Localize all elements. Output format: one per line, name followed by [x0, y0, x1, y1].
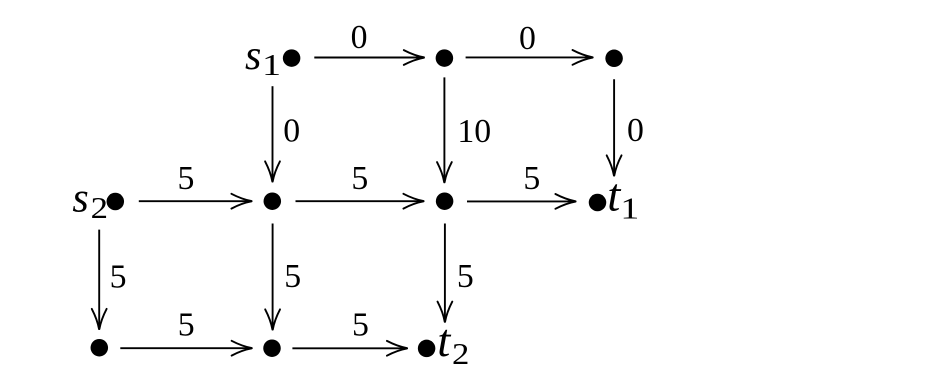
svg-text:5: 5 [351, 160, 368, 197]
arrowhead edge s1->a2 [404, 50, 424, 65]
arrowhead edge s2->b2 [231, 194, 251, 209]
wire edge s2->c1 vertical [98, 230, 100, 329]
svg-text:5: 5 [352, 307, 369, 344]
svg-text:5: 5 [284, 258, 301, 295]
svg-text:t: t [437, 315, 451, 367]
svg-text:10: 10 [457, 113, 491, 150]
svg-text:0: 0 [351, 19, 368, 56]
arrowhead edge c2->t2 [387, 341, 407, 356]
wire edge a2->b3 vertical [443, 77, 445, 182]
node s1 dot [283, 49, 301, 67]
svg-text:1: 1 [620, 192, 639, 226]
svg-text:s: s [72, 176, 88, 222]
wire edge a2->a3 [466, 56, 593, 58]
svg-text:5: 5 [178, 307, 195, 344]
wire edge c1->c2 [120, 347, 251, 349]
wire edge s2->b2 [139, 200, 252, 202]
node c2 dot [263, 339, 281, 357]
arrowhead edge c1->c2 [232, 341, 252, 356]
arrowhead edge b2->c2 vertical [265, 309, 280, 329]
svg-text:t: t [607, 170, 621, 222]
node b2 dot [264, 192, 282, 210]
wire edge a3->t1 vertical [613, 79, 615, 175]
wire edge b3->t2 vertical [444, 224, 446, 322]
wire edge b2->c2 vertical [272, 224, 274, 330]
arrowhead edge s2->c1 vertical [92, 309, 107, 329]
arrowhead edge b2->b3 [403, 194, 423, 209]
svg-text:0: 0 [283, 113, 300, 150]
svg-text:s: s [245, 33, 261, 79]
arrowhead edge s1->b2 vertical [265, 161, 280, 181]
arrowhead edge a3->t1 vertical [607, 155, 622, 175]
svg-text:2: 2 [91, 192, 108, 226]
svg-text:0: 0 [519, 20, 536, 57]
node t2 dot [418, 340, 436, 358]
wire edge b2->b3 [296, 200, 424, 202]
svg-text:0: 0 [627, 112, 644, 149]
arrowhead edge b3->t2 vertical [438, 302, 453, 322]
wire edge c2->t2 [292, 347, 407, 349]
arrowhead edge a2->a3 [573, 50, 593, 65]
node t1 dot [589, 194, 607, 212]
svg-text:1: 1 [262, 48, 281, 82]
wire edge b3->t1 [467, 200, 576, 202]
svg-text:5: 5 [523, 160, 540, 197]
node a3 dot [605, 50, 623, 68]
node a2 dot [436, 49, 454, 67]
node c1 dot [91, 339, 109, 357]
svg-text:5: 5 [457, 258, 474, 295]
wire edge s1->b2 vertical [272, 86, 274, 181]
svg-text:5: 5 [110, 259, 127, 296]
svg-text:2: 2 [452, 338, 469, 372]
arrowhead edge b3->t1 [555, 194, 575, 209]
svg-text:5: 5 [178, 160, 195, 197]
node s2 dot [107, 193, 125, 211]
wire edge s1->a2 [314, 57, 424, 59]
node b3 dot [436, 192, 454, 210]
arrowhead edge a2->b3 vertical [437, 162, 452, 182]
